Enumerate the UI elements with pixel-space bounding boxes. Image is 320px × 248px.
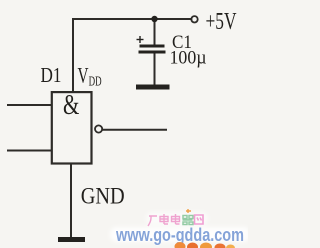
node junction dot [151, 16, 157, 22]
svg-text:DD: DD [89, 75, 102, 90]
watermark orange blobs [175, 242, 236, 248]
svg-text:&: & [63, 89, 80, 121]
wire top +5V rail [73, 18, 191, 20]
svg-text:GND: GND [81, 183, 125, 208]
wire output [102, 129, 166, 131]
wire input 1 [8, 104, 52, 106]
small orange accent above green char [186, 209, 191, 213]
capacitor C1 polarity plus [137, 36, 144, 43]
capacitor C1 plates [139, 45, 166, 54]
ground bar of gate [58, 237, 85, 242]
watermark pink chinese characters (vector mock) [148, 214, 180, 226]
terminal +5V open circle [191, 16, 197, 22]
svg-text:www.go-gdda.com: www.go-gdda.com [115, 224, 244, 245]
wire input 2 [8, 150, 52, 152]
ground bar of capacitor [136, 85, 170, 90]
svg-text:D1: D1 [41, 63, 62, 87]
NAND gate D1 box [52, 92, 92, 163]
wire capacitor bottom lead [154, 54, 156, 86]
wire VDD vertical [72, 19, 74, 92]
inversion bubble [95, 125, 102, 132]
svg-text:V: V [78, 62, 89, 87]
svg-text:100µ: 100µ [170, 49, 207, 69]
wire gate ground lead [70, 164, 72, 238]
svg-text:+5V: +5V [206, 9, 237, 35]
wire capacitor top lead [154, 19, 156, 45]
